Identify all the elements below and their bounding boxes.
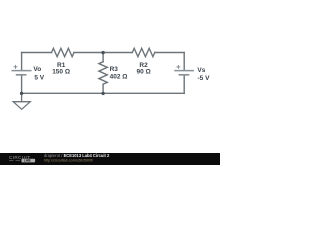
- svg-text:R3: R3: [110, 66, 119, 73]
- svg-text:LAB: LAB: [24, 159, 31, 163]
- svg-text:150 Ω: 150 Ω: [52, 68, 70, 75]
- svg-text:-5 V: -5 V: [198, 75, 211, 82]
- svg-text:90 Ω: 90 Ω: [137, 68, 151, 75]
- svg-text:http://circuitlab.com/c6br59hf: http://circuitlab.com/c6br59hft/: [44, 158, 94, 162]
- svg-text:5 V: 5 V: [34, 75, 44, 82]
- svg-text:Vs: Vs: [197, 67, 205, 74]
- svg-text:402 Ω: 402 Ω: [110, 73, 128, 80]
- svg-text:Vo: Vo: [33, 66, 41, 73]
